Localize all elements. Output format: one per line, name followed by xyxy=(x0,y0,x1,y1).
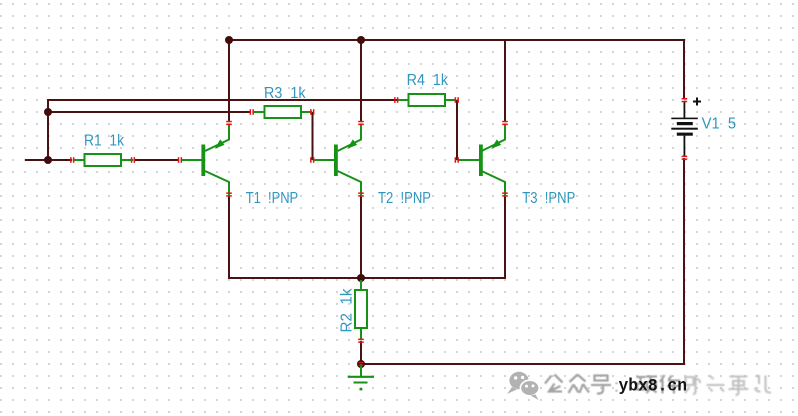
svg-text:T3 !PNP: T3 !PNP xyxy=(522,190,575,207)
svg-text:R2 1k: R2 1k xyxy=(338,288,355,333)
battery V1 xyxy=(671,102,698,156)
wire mid-bottom horizontal xyxy=(228,277,506,279)
pin mark T2 collector xyxy=(358,192,364,196)
svg-text:T2 !PNP: T2 !PNP xyxy=(378,190,431,207)
wire T2 collector drop xyxy=(360,196,362,279)
pin mark R2 pin2 xyxy=(358,339,364,343)
wire T1 collector drop xyxy=(228,196,230,279)
wire A upper horizontal xyxy=(47,99,397,101)
pin mark T1 collector xyxy=(226,192,232,196)
label R3 1k xyxy=(264,85,306,102)
transistor T3 xyxy=(459,124,506,196)
wire T2 emitter drop xyxy=(360,39,362,121)
wire T3 emitter drop xyxy=(504,39,506,121)
node wire A/B left junction xyxy=(44,108,52,116)
watermark gray text gongzhonghao xyxy=(545,375,681,394)
wire R4 to T3 base xyxy=(456,100,458,160)
pin mark T3 emitter xyxy=(502,121,508,125)
watermark ybx8.cn text xyxy=(619,377,688,397)
svg-text:ybx8.cn: ybx8.cn xyxy=(619,377,688,397)
transistor T2 xyxy=(314,124,361,196)
resistor R3 xyxy=(253,106,312,118)
wire top rail xyxy=(228,39,685,41)
wire bottom horizontal xyxy=(360,363,685,365)
pin mark T1 emitter xyxy=(226,121,232,125)
resistor R1 xyxy=(73,154,133,166)
node top rail left junction xyxy=(225,36,233,44)
pin mark battery plus xyxy=(682,98,688,102)
pin mark R3 pin1 xyxy=(250,109,254,115)
svg-text:V1 5: V1 5 xyxy=(702,116,737,133)
pin mark T3 base xyxy=(455,157,459,163)
label V1 5 xyxy=(702,116,737,133)
wire node to R1 xyxy=(48,159,72,161)
pin mark T3 collector xyxy=(502,192,508,196)
wire T3 collector drop xyxy=(504,196,506,279)
pin mark T2 base xyxy=(310,157,314,163)
label R2 1k xyxy=(338,288,355,333)
ground xyxy=(348,364,374,390)
pin mark R3 pin2 xyxy=(310,109,314,115)
pin mark R4 pin1 xyxy=(394,97,398,103)
pin mark R4 pin2 xyxy=(455,97,459,103)
pin mark battery minus xyxy=(682,156,688,160)
label T1 !PNP xyxy=(246,190,299,207)
wire battery top drop xyxy=(683,39,685,98)
watermark gray text nadianshi xyxy=(685,375,772,395)
node R2 top junction xyxy=(357,274,365,282)
wire T1 emitter drop xyxy=(228,39,230,121)
wire R3 to T2 base xyxy=(312,112,314,160)
node input junction xyxy=(44,156,52,164)
resistor R2 xyxy=(355,280,367,340)
pin mark ground node xyxy=(359,362,364,366)
transistor T1 xyxy=(181,124,229,196)
svg-text:R3 1k: R3 1k xyxy=(264,85,306,102)
svg-text:R4 1k: R4 1k xyxy=(407,72,449,89)
pin mark T2 emitter xyxy=(358,121,364,125)
node top rail mid junction xyxy=(357,36,365,44)
wire input stub xyxy=(25,159,49,161)
label T2 !PNP xyxy=(378,190,431,207)
svg-text:T1 !PNP: T1 !PNP xyxy=(246,190,299,207)
node ground junction xyxy=(357,360,365,368)
pin mark R1 pin1 xyxy=(70,157,74,163)
label T3 !PNP xyxy=(522,190,575,207)
wire B to R3 xyxy=(48,111,251,113)
wire R1 to T1 base xyxy=(134,159,179,161)
resistor R4 xyxy=(397,94,456,106)
svg-text:R1 1k: R1 1k xyxy=(84,132,125,149)
wire left vertical xyxy=(47,99,49,161)
wire R2 bottom link xyxy=(360,341,362,365)
label R1 1k xyxy=(84,132,125,149)
watermark wechat icon xyxy=(507,372,539,400)
battery plus sign xyxy=(693,98,701,106)
pin mark R1 pin2 xyxy=(131,157,135,163)
pin mark T1 base xyxy=(178,157,182,163)
wire battery bottom riser xyxy=(683,158,685,365)
label R4 1k xyxy=(407,72,449,89)
